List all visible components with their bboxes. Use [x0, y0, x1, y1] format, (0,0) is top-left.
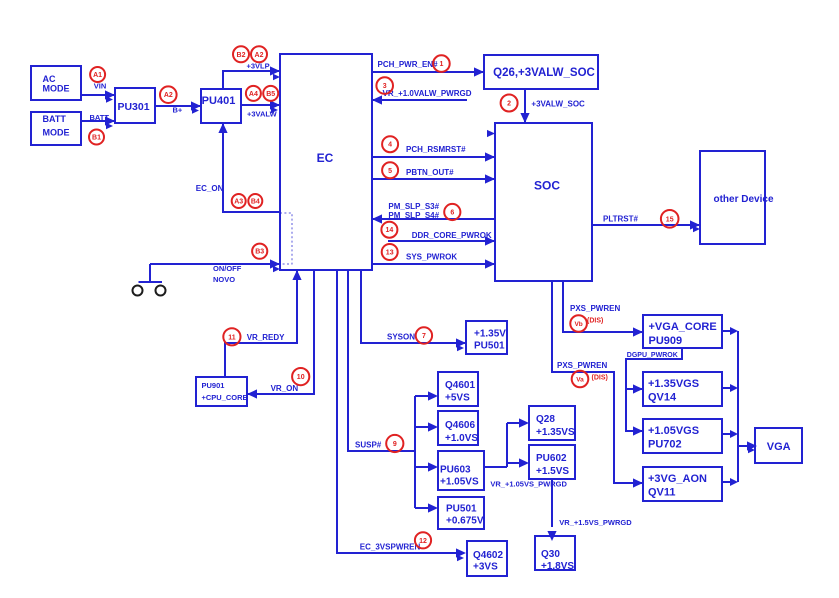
svg-text:Q4606: Q4606 [445, 420, 475, 431]
svg-text:A2: A2 [164, 92, 173, 99]
svg-text:B1: B1 [92, 135, 101, 142]
svg-text:VR_+1.0VALW_PWRGD: VR_+1.0VALW_PWRGD [383, 89, 472, 98]
svg-text:BATT: BATT [43, 114, 67, 124]
svg-text:13: 13 [386, 250, 394, 257]
svg-text:PCH_RSMRST#: PCH_RSMRST# [406, 145, 466, 154]
svg-text:A1: A1 [93, 72, 102, 79]
svg-text:+1.5VS: +1.5VS [536, 466, 569, 477]
svg-text:+0.675V: +0.675V [446, 516, 484, 527]
svg-text:PCH_PWR_EN#: PCH_PWR_EN# [378, 60, 439, 69]
svg-text:PU401: PU401 [202, 95, 236, 107]
svg-text:7: 7 [422, 333, 426, 340]
svg-text:PU909: PU909 [649, 335, 683, 347]
svg-text:ON/OFF: ON/OFF [213, 264, 242, 273]
svg-text:PU501: PU501 [474, 341, 505, 352]
svg-text:+3VG_AON: +3VG_AON [648, 473, 707, 485]
svg-text:SYSON: SYSON [387, 333, 415, 342]
svg-text:MODE: MODE [43, 128, 70, 138]
svg-text:VR_ON: VR_ON [271, 384, 299, 393]
svg-text:B4: B4 [251, 199, 260, 206]
svg-text:PXS_PWREN: PXS_PWREN [570, 304, 620, 313]
svg-text:PU603: PU603 [440, 465, 471, 476]
svg-text:6: 6 [450, 210, 454, 217]
svg-text:+1.05VS: +1.05VS [440, 477, 479, 488]
svg-text:PU702: PU702 [648, 439, 682, 451]
svg-text:A3: A3 [234, 199, 243, 206]
svg-text:PU901: PU901 [202, 381, 225, 390]
svg-text:PM_SLP_S3#: PM_SLP_S3# [388, 202, 439, 211]
svg-text:+CPU_CORE: +CPU_CORE [202, 393, 248, 402]
svg-text:PU501: PU501 [446, 504, 477, 515]
svg-text:PU301: PU301 [117, 101, 149, 113]
svg-text:VR_REDY: VR_REDY [247, 333, 285, 342]
svg-text:NOVO: NOVO [213, 275, 235, 284]
svg-text:PBTN_OUT#: PBTN_OUT# [406, 168, 454, 177]
svg-text:A2: A2 [255, 52, 264, 59]
svg-text:10: 10 [297, 374, 305, 381]
svg-text:(DIS): (DIS) [587, 318, 603, 325]
svg-text:Vb: Vb [574, 321, 582, 328]
svg-text:+1.8VS: +1.8VS [541, 561, 574, 572]
svg-text:9: 9 [393, 441, 397, 448]
svg-text:B2: B2 [237, 52, 246, 59]
svg-text:(DIS): (DIS) [592, 375, 608, 382]
svg-text:AC: AC [43, 74, 56, 84]
svg-text:+1.05VGS: +1.05VGS [648, 425, 699, 437]
svg-text:DDR_CORE_PWROK: DDR_CORE_PWROK [412, 231, 492, 240]
svg-text:QV14: QV14 [648, 392, 677, 404]
svg-text:12: 12 [419, 538, 427, 545]
svg-text:2: 2 [507, 101, 511, 108]
svg-text:PXS_PWREN: PXS_PWREN [557, 361, 607, 370]
svg-text:3: 3 [383, 83, 387, 90]
svg-text:PU602: PU602 [536, 453, 567, 464]
svg-text:SOC: SOC [534, 179, 560, 193]
svg-text:+1.35VS: +1.35VS [536, 427, 575, 438]
svg-text:+3VALW_SOC: +3VALW_SOC [531, 100, 585, 109]
svg-text:PM_SLP_S4#: PM_SLP_S4# [388, 211, 439, 220]
svg-text:Va: Va [576, 377, 584, 384]
svg-text:EC_3VSPWREN: EC_3VSPWREN [360, 543, 421, 552]
svg-text:Q26,+3VALW_SOC: Q26,+3VALW_SOC [493, 67, 595, 79]
svg-text:+1.0VS: +1.0VS [445, 433, 478, 444]
svg-text:QV11: QV11 [648, 487, 676, 499]
svg-text:Q4601: Q4601 [445, 380, 475, 391]
svg-text:B+: B+ [173, 106, 183, 115]
svg-text:EC_ON: EC_ON [196, 184, 224, 193]
svg-text:4: 4 [388, 142, 392, 149]
svg-text:Q4602: Q4602 [473, 550, 503, 561]
svg-text:VGA: VGA [767, 441, 791, 453]
svg-text:+1.35V: +1.35V [474, 329, 506, 340]
svg-text:VR_+1.05VS_PWRGD: VR_+1.05VS_PWRGD [490, 480, 567, 489]
svg-text:+VGA_CORE: +VGA_CORE [649, 321, 717, 333]
svg-text:MODE: MODE [43, 84, 70, 94]
svg-text:B3: B3 [255, 249, 264, 256]
svg-text:VR_+1.5VS_PWRGD: VR_+1.5VS_PWRGD [559, 518, 632, 527]
svg-text:DGPU_PWROK: DGPU_PWROK [627, 352, 678, 359]
svg-text:B5: B5 [266, 91, 275, 98]
svg-text:11: 11 [228, 334, 236, 341]
svg-text:SUSP#: SUSP# [355, 441, 382, 450]
svg-text:15: 15 [666, 216, 674, 223]
svg-text:+3VALW: +3VALW [247, 110, 278, 119]
svg-text:PLTRST#: PLTRST# [603, 215, 639, 224]
svg-text:EC: EC [317, 151, 334, 165]
svg-text:5: 5 [388, 168, 392, 175]
svg-text:+5VS: +5VS [445, 393, 470, 404]
svg-text:SYS_PWROK: SYS_PWROK [406, 253, 457, 262]
svg-text:other Device: other Device [713, 194, 773, 205]
svg-text:14: 14 [386, 227, 394, 234]
svg-text:Q30: Q30 [541, 549, 560, 560]
svg-text:1: 1 [439, 61, 443, 68]
svg-text:+1.35VGS: +1.35VGS [648, 378, 699, 390]
svg-text:+3VS: +3VS [473, 562, 498, 573]
svg-text:BATT: BATT [90, 113, 110, 122]
svg-text:Q28: Q28 [536, 414, 555, 425]
svg-text:A4: A4 [249, 91, 258, 98]
